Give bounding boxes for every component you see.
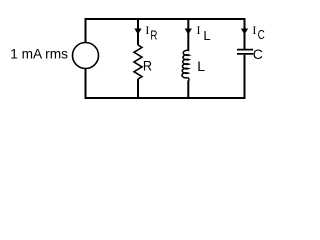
wire coil tail xyxy=(188,78,189,81)
svg-text:1 mA rms: 1 mA rms xyxy=(10,47,68,62)
capacitor C top plate xyxy=(237,49,253,51)
arrow I_R current direction xyxy=(134,29,141,35)
resistor R xyxy=(134,45,142,79)
svg-text:L: L xyxy=(203,28,210,43)
capacitor C bottom plate xyxy=(237,53,253,55)
arrow I_L current direction xyxy=(185,29,192,35)
wire branch L bottom xyxy=(187,81,189,100)
svg-text:R: R xyxy=(150,28,157,43)
wire left lower segment xyxy=(85,69,87,100)
wire branch R bottom xyxy=(137,79,139,99)
wire branch R top xyxy=(137,18,139,45)
svg-text:R: R xyxy=(143,57,152,73)
current source I1 1 mA rms xyxy=(73,43,99,69)
svg-text:I: I xyxy=(145,23,149,37)
wire bottom rail xyxy=(85,97,246,99)
wire branch L top xyxy=(187,18,189,50)
svg-text:L: L xyxy=(197,58,205,74)
svg-text:I: I xyxy=(197,23,201,37)
arrow I_C current direction xyxy=(241,29,248,35)
wire right upper segment xyxy=(244,18,246,49)
inductor L coil xyxy=(182,50,189,78)
wire right lower segment xyxy=(244,55,246,99)
svg-text:C: C xyxy=(253,46,263,62)
wire left upper segment xyxy=(85,18,87,43)
wire top rail xyxy=(85,18,246,20)
svg-text:I: I xyxy=(252,23,256,37)
svg-text:C: C xyxy=(258,27,265,42)
